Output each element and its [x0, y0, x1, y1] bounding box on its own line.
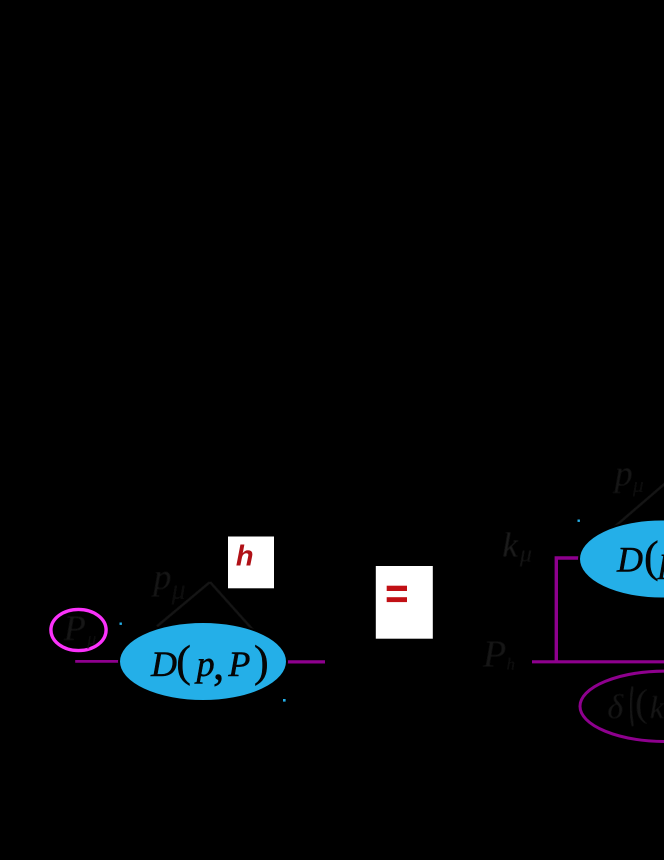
svg-text:μ: μ — [632, 472, 644, 497]
svg-text:p: p — [150, 557, 171, 597]
svg-text:k: k — [502, 525, 519, 564]
svg-text:k: k — [650, 689, 664, 725]
node D(p,P) label right (cut at edge) — [616, 533, 664, 582]
node P_h label (bottom right) — [482, 633, 515, 675]
svg-text:p: p — [194, 644, 215, 684]
node cyan speck B — [283, 699, 286, 702]
svg-text:): ) — [254, 637, 269, 686]
svg-text:μ: μ — [519, 542, 532, 568]
wire: bottom quark line (right) — [532, 660, 664, 663]
svg-text:P: P — [227, 644, 250, 684]
op-amp: left blob — [119, 622, 287, 701]
node cyan speck C — [578, 520, 580, 522]
svg-text:δ: δ — [607, 689, 624, 726]
node p_mu momentum label (left) — [150, 557, 185, 606]
svg-text:(: ( — [176, 637, 191, 686]
node p_mu label (top right) — [612, 453, 644, 497]
node D(p,P) label left — [150, 637, 269, 689]
svg-text:μ: μ — [171, 574, 186, 605]
svg-text:p: p — [612, 453, 633, 493]
svg-text:h: h — [507, 655, 516, 674]
wire: right quark line out of left blob — [286, 660, 325, 663]
node equals box — [376, 566, 433, 639]
svg-text:(: ( — [644, 533, 659, 582]
svg-text:P: P — [482, 633, 506, 675]
node P_mu (magenta momentum circle) — [51, 608, 106, 651]
svg-text:(: ( — [635, 682, 648, 725]
node h label box — [228, 537, 274, 589]
svg-text:h: h — [236, 541, 254, 573]
wire: purple elbow from right blob — [556, 558, 580, 661]
wire: hadron line top right — [612, 474, 664, 530]
node cyan speck A — [120, 623, 122, 625]
svg-text:,: , — [213, 639, 224, 689]
capacitor: delta-function ellipse — [580, 671, 664, 741]
svg-text:D: D — [616, 540, 643, 580]
svg-text:μ: μ — [86, 629, 96, 649]
svg-text:P: P — [63, 608, 86, 648]
node k_mu momentum label (right) — [502, 525, 532, 567]
wire: left quark line into left blob — [75, 660, 122, 663]
op-amp: right blob — [579, 520, 664, 599]
wire: hadron caret lines above left blob — [157, 554, 262, 641]
svg-text:D: D — [150, 644, 177, 684]
